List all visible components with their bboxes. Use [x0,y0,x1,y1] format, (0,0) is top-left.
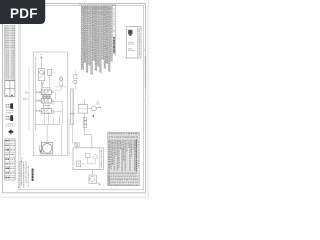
gauge box [89,175,97,184]
gauge G1 [60,77,63,80]
title table left dark column [108,140,109,185]
wire F1 to G2 [88,107,92,109]
revision table strip (rotated) [5,26,15,81]
heat exchanger / cylinder tall element [71,89,74,125]
BOM right header column text [113,37,115,54]
BOM rotated text columns [81,6,84,69]
title table divider [9,139,11,180]
tick above suction [40,54,42,56]
gauge under CV1 [74,80,77,83]
main title block table (rotated) [108,132,139,185]
PDF badge [0,0,45,24]
wire below CV1 [74,83,76,89]
title block table lower-left [5,139,15,180]
border tick right [144,49,146,51]
inner field line left [20,6,22,190]
port gauge right 1 [52,103,54,105]
right branch component dashes [83,99,87,101]
port gauge right 2 [53,113,55,115]
tick on tall element [70,113,75,114]
tick on tall element cross [70,113,75,114]
pump box label text [101,150,102,168]
drain arrow mark [98,182,101,185]
pump assembly box [73,148,103,170]
power unit enclosure [33,52,67,156]
stamp1 text b [6,106,10,107]
small text above G2 line2 [97,102,100,105]
wire below relief valve [42,85,44,89]
text row between stamps [6,109,13,112]
port gauge left 2 [24,98,26,100]
notes heading (rotated dark word) [32,169,34,182]
check valve CV1 [74,74,77,78]
approval table divider h [5,88,15,90]
stamp1 text a [6,104,10,105]
wire G1 left [55,89,61,91]
top header band text row1 [109,133,139,134]
gauge G2 [92,106,97,111]
wire from tall element to pump box [71,125,73,144]
logo/stamp box [126,27,141,59]
tiny labels above valve V1 [43,86,51,89]
logo box underline 1 [128,43,135,45]
small text row2 [6,125,14,128]
wire above CV1 [74,71,76,75]
approval table marks [11,95,13,96]
BOM column lines [83,5,112,75]
border tick top [79,3,81,5]
directional valve V1 [41,90,51,94]
filter diamond [93,154,98,160]
revision table row lines [5,28,15,48]
title table top header band lines [108,135,139,137]
component wire G1 [60,86,62,91]
pump drain dashed wire [52,71,57,73]
page bottom edge [0,197,149,198]
port gauge left 1 [25,91,27,93]
border tick right2 [144,99,146,101]
directional valve V3 [41,109,51,114]
manifold outline bottom [35,124,59,126]
page right edge [148,0,149,198]
revision strip centre line [9,26,11,81]
wire UV1 down [49,75,51,90]
junction port 1 [37,92,38,93]
approval 2x2 table [5,81,15,97]
arrow stamp (dark) [8,129,13,134]
revision strip text col2 [8,50,9,79]
aux vertical wire left [28,67,30,130]
svg-text:PDF: PDF [10,6,38,21]
small text above G2 [97,100,100,103]
wire manifold to motor [46,125,48,143]
motor terminal box [39,146,41,151]
logo box small text 2 [128,47,133,50]
logo box rotated text [139,28,140,57]
flow arrow [40,56,42,59]
title table column lines [110,139,134,172]
right branch wire upper [83,100,85,105]
stamp2 text a [6,116,10,117]
pump box inner wires [81,163,86,165]
revision strip text col1 [6,50,7,79]
BOM header lines across [81,7,112,9]
pump box inner divider [99,148,101,170]
valve right port wires [55,92,57,99]
stamp2 text b [6,119,10,120]
title table rotated text columns [111,140,112,170]
title table lower band lines [108,171,139,173]
title table lower band text rows [109,173,137,174]
stacked component chain [84,117,87,120]
wire from pump area to heat exchanger [55,86,68,88]
logo glyph [128,30,132,35]
wire pump box to gauge box [92,170,94,175]
right port bus wire [62,101,64,124]
small marks near left border mid [21,158,24,162]
directional valve V2 [41,99,51,103]
relief valve triangle [42,82,44,84]
notes text lines (rotated) [19,161,20,188]
title table right dark column [136,140,138,173]
filter F1 [78,104,87,113]
elbow wire to pump box [84,134,92,136]
approval table divider v [9,81,11,97]
BOM table background mass [81,5,112,75]
valve interconnect wires [43,94,45,98]
coupling rect with X [77,161,81,167]
G2 label text [97,106,101,109]
stamp block 1 (dark) [10,103,13,108]
border tick left [3,119,5,121]
left bus wire [34,57,36,131]
suction line wire [40,59,42,69]
BOM table frame top-right [81,4,116,6]
manifold plate shading [42,95,51,98]
logo box small text 1 [128,41,133,44]
enclosure right wires [61,125,63,156]
stamp block 2 (dark) [10,115,13,121]
revision strip text col4 [13,50,14,79]
unloader valve UV1 [48,69,52,75]
junction port 2 [37,100,38,101]
rotated drawing number right margin [145,56,146,88]
motor label plate [41,152,53,155]
right branch wire lower [83,113,85,135]
inline component pair [75,143,77,146]
gauge dial [90,176,95,181]
logo box divider [137,27,139,59]
wires valves to bus [35,91,41,93]
small text row [6,123,14,126]
logo box underline 2 [128,50,135,52]
valve labels small text [43,95,51,98]
wires below valve stack [44,113,46,125]
revision strip text col3 [11,50,12,79]
text row between stamps 2 [6,111,13,114]
pump P1 [38,69,45,81]
small dark mark right [93,115,94,117]
small pump rect [86,154,91,158]
outer border frame [3,3,146,193]
junction port 3 [37,110,38,111]
top header band text row2 [109,137,139,138]
inner border frame [19,6,144,190]
G1 tick [60,75,62,77]
title table right edge column text [137,141,140,168]
electric motor M1 [41,142,52,153]
pump outlet wire [41,81,43,90]
